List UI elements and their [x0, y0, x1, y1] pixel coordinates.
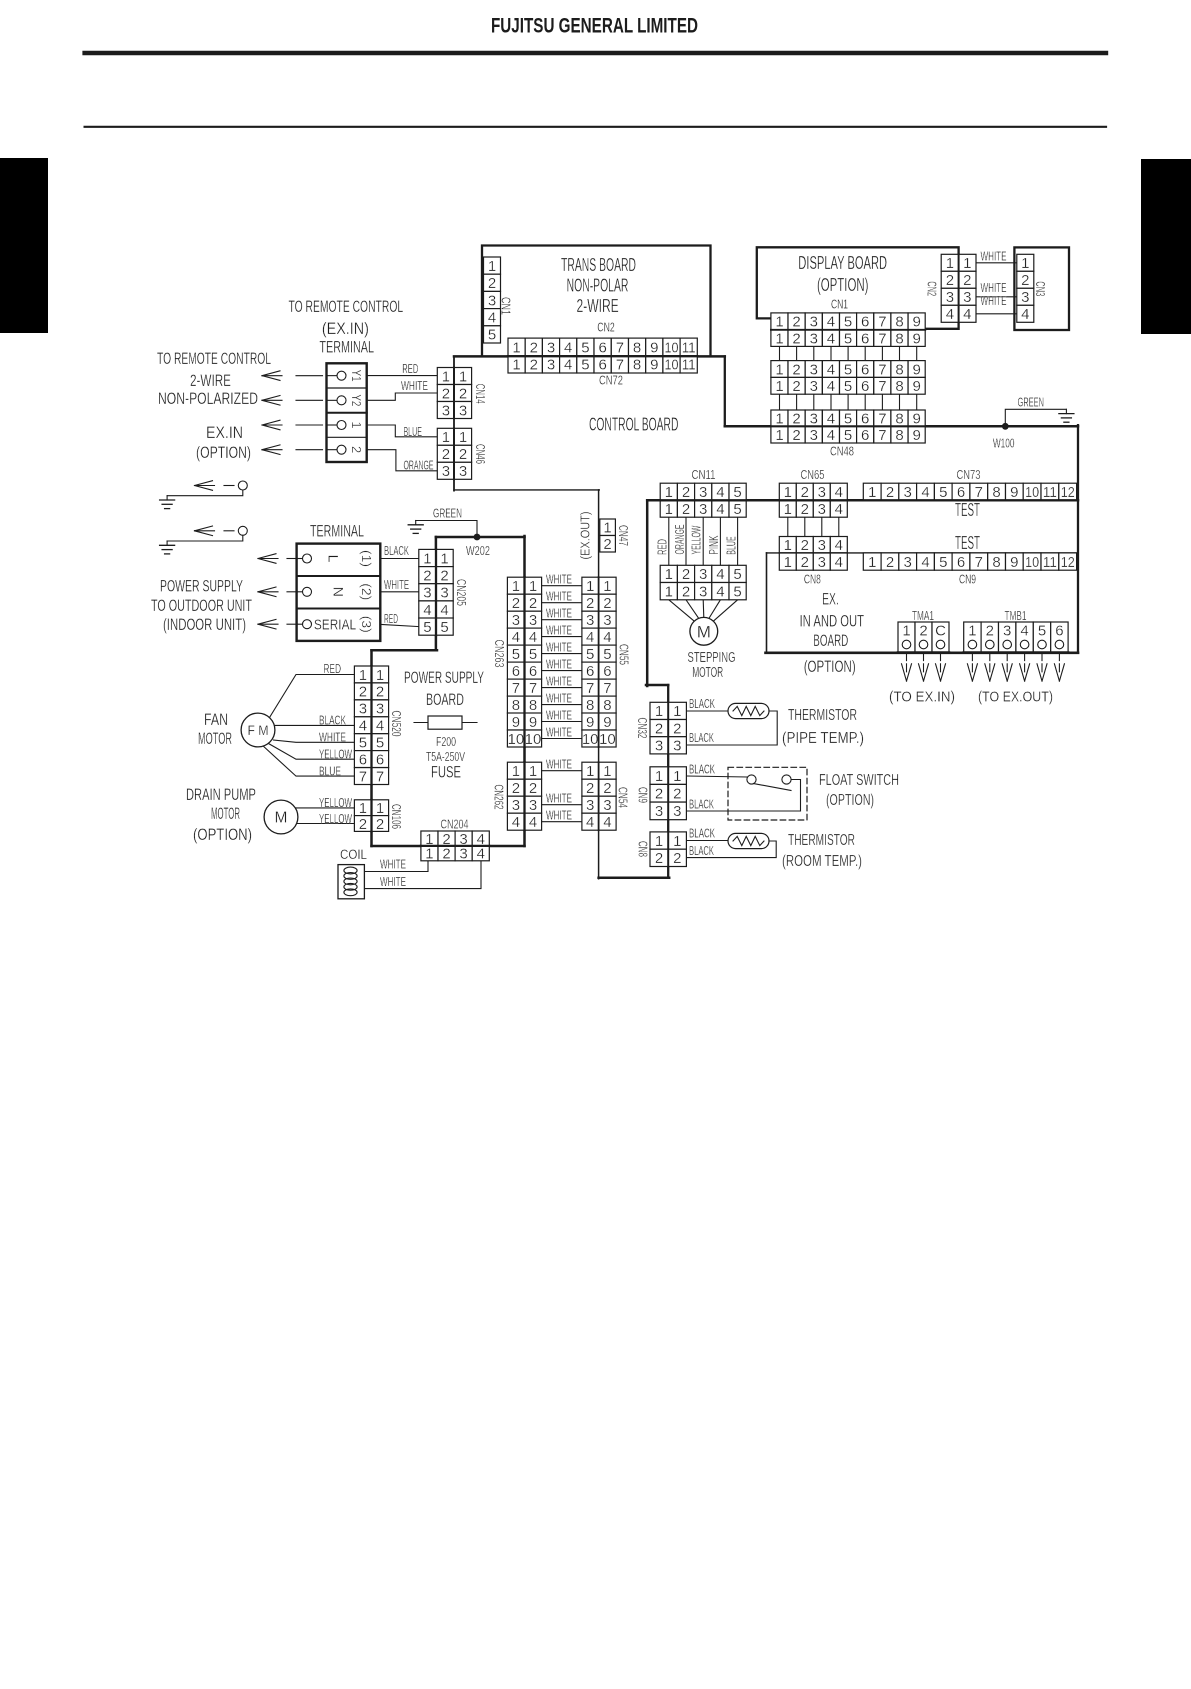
connector CN14 col1	[437, 368, 454, 420]
wires CN65 to CN8	[788, 517, 839, 536]
svg-text:CN2: CN2	[597, 320, 615, 335]
wire CN263 pin9 to CN55 pin9 (WHITE)	[542, 721, 582, 723]
connector CN2 (display board) col1	[941, 254, 958, 323]
svg-text:MOTOR: MOTOR	[211, 804, 240, 823]
svg-text:2: 2	[376, 684, 384, 701]
wire CN263 pin3 to CN55 pin3 (WHITE)	[542, 619, 582, 621]
svg-text:(PIPE TEMP.): (PIPE TEMP.)	[782, 730, 864, 747]
svg-text:TO REMOTE CONTROL: TO REMOTE CONTROL	[157, 349, 271, 368]
board edge through CN2/CN72	[508, 355, 697, 357]
label MOTOR	[692, 664, 723, 681]
svg-text:3: 3	[655, 803, 663, 820]
svg-text:2: 2	[603, 595, 611, 612]
svg-text:7: 7	[359, 768, 367, 785]
svg-text:(2): (2)	[359, 583, 374, 600]
svg-text:1: 1	[665, 501, 673, 518]
wire label RED	[384, 611, 398, 626]
svg-text:1: 1	[425, 846, 433, 863]
board edge through CN520/CN106	[370, 666, 372, 831]
svg-text:CN205: CN205	[454, 579, 469, 606]
svg-text:CN1: CN1	[831, 297, 848, 312]
svg-text:YELLOW: YELLOW	[319, 747, 352, 762]
svg-text:3: 3	[442, 402, 450, 419]
svg-text:1: 1	[359, 800, 367, 817]
float switch box (dashed)	[728, 767, 807, 820]
svg-text:3: 3	[810, 427, 818, 444]
pipe thermistor symbol	[728, 703, 769, 718]
svg-text:4: 4	[359, 718, 367, 735]
wire Y2 to CN14 pin2	[367, 393, 438, 400]
svg-text:3: 3	[673, 803, 681, 820]
svg-text:10: 10	[582, 731, 599, 748]
label (INDOOR UNIT)	[163, 615, 246, 634]
svg-text:BLACK: BLACK	[689, 762, 715, 777]
svg-text:2: 2	[801, 501, 809, 518]
connector label CN48	[830, 444, 854, 459]
svg-text:CN263: CN263	[492, 640, 507, 668]
svg-text:3: 3	[699, 583, 707, 600]
svg-text:2: 2	[442, 446, 450, 463]
svg-text:FAN: FAN	[204, 710, 228, 729]
svg-text:1: 1	[349, 421, 364, 428]
connector label CN47 (rotated)	[616, 525, 631, 546]
label FLOAT SWITCH	[819, 772, 899, 789]
svg-text:4: 4	[1021, 306, 1029, 323]
connector CN205 col2	[436, 549, 453, 636]
svg-text:1: 1	[442, 368, 450, 385]
svg-text:FLOAT SWITCH: FLOAT SWITCH	[819, 772, 899, 789]
wire label WHITE row 10	[546, 724, 572, 739]
label DRAIN PUMP	[186, 785, 256, 804]
stepping motor M	[690, 617, 718, 645]
svg-text:WHITE: WHITE	[546, 606, 572, 621]
svg-text:RED: RED	[654, 539, 669, 555]
svg-text:IN AND OUT: IN AND OUT	[800, 612, 865, 631]
wire label RED	[402, 361, 418, 376]
wires joint connector to CN48	[780, 394, 917, 410]
svg-text:3: 3	[818, 554, 826, 571]
svg-text:3: 3	[488, 292, 496, 309]
terminal TMB1	[964, 622, 1068, 653]
board edge through display CN1	[771, 329, 925, 331]
svg-text:3: 3	[818, 501, 826, 518]
svg-text:ORANGE: ORANGE	[672, 524, 687, 554]
svg-text:4: 4	[716, 484, 724, 501]
svg-text:4: 4	[440, 602, 448, 619]
svg-text:10: 10	[1025, 554, 1039, 571]
svg-text:7: 7	[512, 680, 520, 697]
label COIL	[340, 846, 367, 862]
svg-text:9: 9	[913, 361, 921, 378]
svg-text:RED: RED	[402, 361, 418, 376]
wire float switch to CN9 pin3 (BLACK)	[687, 780, 801, 812]
svg-text:BLACK: BLACK	[689, 696, 715, 711]
svg-text:11: 11	[1043, 554, 1057, 571]
svg-text:10: 10	[508, 731, 525, 748]
svg-text:3: 3	[376, 701, 384, 718]
svg-text:5: 5	[733, 583, 741, 600]
svg-text:5: 5	[844, 410, 852, 427]
svg-text:2-WIRE: 2-WIRE	[576, 296, 618, 316]
wire label GREEN	[1018, 394, 1044, 409]
wire FM RED to CN520 pin1	[270, 675, 355, 718]
svg-text:CN204: CN204	[441, 817, 469, 832]
wire label BLACK	[689, 762, 715, 777]
svg-text:9: 9	[913, 314, 921, 331]
svg-text:4: 4	[512, 629, 520, 646]
svg-text:DISPLAY BOARD: DISPLAY BOARD	[798, 253, 887, 273]
svg-text:4: 4	[835, 501, 843, 518]
svg-text:2: 2	[682, 583, 690, 600]
label 2-WIRE	[190, 371, 231, 390]
label F200	[436, 734, 456, 749]
svg-text:2: 2	[986, 623, 994, 640]
svg-text:3: 3	[459, 846, 467, 863]
label NON-POLARIZED	[158, 389, 258, 408]
svg-text:2: 2	[603, 780, 611, 797]
wires connector to stepping motor	[669, 600, 738, 621]
wire label WHITE row 3	[546, 606, 572, 621]
svg-text:WHITE: WHITE	[981, 294, 1007, 308]
svg-text:1: 1	[529, 578, 537, 595]
svg-text:1: 1	[665, 583, 673, 600]
svg-text:1: 1	[376, 667, 384, 684]
connector label CN55 (rotated)	[616, 644, 631, 665]
svg-text:1: 1	[946, 255, 954, 272]
svg-text:2: 2	[1021, 272, 1029, 289]
connector label CN8 (rotated)	[635, 841, 650, 857]
svg-text:WHITE: WHITE	[546, 724, 572, 739]
wire label RED	[323, 661, 341, 676]
svg-text:4: 4	[827, 410, 835, 427]
display board box	[757, 247, 959, 328]
svg-text:TERMINAL: TERMINAL	[310, 522, 364, 541]
svg-text:M: M	[275, 810, 288, 827]
connector label CN65	[801, 467, 825, 482]
svg-text:5: 5	[844, 361, 852, 378]
svg-text:1: 1	[512, 339, 520, 356]
svg-text:3: 3	[440, 585, 448, 602]
wire L terminal to CN205 pin1	[380, 558, 419, 560]
svg-text:CN54: CN54	[615, 787, 630, 808]
svg-text:F200: F200	[436, 734, 456, 749]
svg-text:SERIAL: SERIAL	[314, 617, 356, 633]
wire drain pump YELLOW to CN106 pin2	[296, 823, 354, 825]
remote control terminal block	[327, 363, 367, 462]
svg-text:3: 3	[818, 484, 826, 501]
svg-text:2: 2	[423, 567, 431, 584]
svg-text:CN3: CN3	[1033, 281, 1048, 296]
svg-text:2: 2	[440, 567, 448, 584]
svg-text:3: 3	[946, 289, 954, 306]
board edge through CN14/CN46	[453, 368, 455, 480]
svg-text:3: 3	[442, 463, 450, 480]
label NON-POLAR	[567, 276, 629, 296]
svg-text:5: 5	[733, 501, 741, 518]
svg-text:1: 1	[512, 763, 520, 780]
wire label WHITE CN262 row 4	[546, 808, 572, 823]
svg-text:1: 1	[673, 833, 681, 850]
connector CN1 (display board) row1	[771, 313, 925, 331]
svg-text:5: 5	[512, 646, 520, 663]
label POWER SUPPLY	[160, 577, 243, 596]
svg-text:1: 1	[868, 484, 876, 501]
svg-text:3: 3	[603, 797, 611, 814]
arrow power supply row 3	[258, 619, 298, 629]
wire label ORANGE	[404, 458, 434, 473]
wire CN263 pin8 to CN55 pin8 (WHITE)	[542, 704, 582, 706]
svg-text:4: 4	[586, 814, 594, 831]
svg-text:3: 3	[810, 410, 818, 427]
svg-text:5: 5	[603, 646, 611, 663]
svg-text:8: 8	[895, 427, 903, 444]
svg-text:5: 5	[376, 735, 384, 752]
svg-text:WHITE: WHITE	[546, 808, 572, 823]
svg-text:7: 7	[878, 330, 886, 347]
wires display CN1 row to joint connector	[780, 346, 917, 360]
svg-text:3: 3	[810, 314, 818, 331]
wire CN263 pin1 to CN55 pin1 (WHITE)	[542, 585, 582, 587]
svg-text:2: 2	[512, 780, 520, 797]
svg-text:6: 6	[861, 410, 869, 427]
svg-text:YELLOW: YELLOW	[689, 525, 704, 554]
svg-text:11: 11	[682, 357, 696, 374]
arrow to remote control row 3	[262, 420, 323, 430]
svg-text:BLUE: BLUE	[403, 424, 422, 439]
svg-text:WHITE: WHITE	[546, 707, 572, 722]
label TEST	[955, 533, 980, 553]
junction W202	[474, 534, 481, 541]
svg-text:CN65: CN65	[801, 467, 825, 482]
svg-text:3: 3	[810, 361, 818, 378]
svg-text:TRANS BOARD: TRANS BOARD	[561, 255, 636, 275]
svg-text:W202: W202	[466, 543, 490, 558]
svg-text:CN72: CN72	[599, 373, 623, 388]
svg-text:3: 3	[810, 378, 818, 395]
svg-text:2: 2	[963, 272, 971, 289]
board edge through CN32/CN9/CN8	[667, 702, 669, 866]
svg-text:11: 11	[682, 339, 696, 356]
wire label W100	[993, 436, 1015, 451]
svg-text:8: 8	[895, 378, 903, 395]
label EX.	[822, 590, 839, 609]
svg-text:WHITE: WHITE	[546, 690, 572, 705]
svg-text:1: 1	[488, 258, 496, 275]
svg-text:7: 7	[603, 680, 611, 697]
wire label BLACK	[689, 797, 714, 812]
svg-text:2: 2	[488, 275, 496, 292]
arrows to EX.OUT	[967, 653, 1064, 681]
connector label CN204	[441, 817, 469, 832]
wire label BLUE	[319, 764, 341, 779]
svg-text:3: 3	[547, 339, 555, 356]
svg-text:POWER SUPPLY: POWER SUPPLY	[160, 577, 243, 596]
svg-text:3: 3	[810, 330, 818, 347]
control board outline	[454, 356, 1078, 878]
svg-text:10: 10	[665, 339, 679, 356]
svg-text:2: 2	[673, 850, 681, 867]
svg-text:EX.: EX.	[822, 590, 839, 609]
connector label CN9 (rotated)	[635, 787, 650, 803]
wire CN263 pin7 to CN55 pin7 (WHITE)	[542, 687, 582, 689]
svg-text:CN2: CN2	[925, 281, 940, 296]
svg-text:2: 2	[655, 720, 663, 737]
wire SERIAL terminal to CN205 pin5	[380, 624, 419, 626]
svg-text:1: 1	[775, 410, 783, 427]
svg-text:TO REMOTE CONTROL: TO REMOTE CONTROL	[289, 297, 404, 316]
svg-text:MOTOR: MOTOR	[692, 664, 723, 681]
svg-text:CN520: CN520	[389, 711, 404, 737]
svg-text:5: 5	[581, 357, 589, 374]
svg-text:4: 4	[835, 554, 843, 571]
power supply terminal block	[297, 544, 381, 641]
connector CN11 row1	[660, 483, 746, 501]
svg-text:4: 4	[1020, 623, 1028, 640]
svg-text:CN8: CN8	[635, 841, 650, 857]
stepping motor connector row1	[660, 565, 746, 583]
svg-text:4: 4	[835, 484, 843, 501]
svg-text:2: 2	[529, 780, 537, 797]
connector CN205 col1	[419, 549, 436, 636]
label (EX.OUT) (rotated)	[578, 512, 593, 560]
svg-text:12: 12	[1061, 554, 1075, 571]
connector CN8 col2	[668, 832, 686, 867]
svg-text:WHITE: WHITE	[384, 577, 409, 592]
svg-text:1: 1	[968, 623, 976, 640]
svg-text:1: 1	[603, 763, 611, 780]
wire label WHITE CN2-CN3 row 4	[981, 294, 1007, 308]
svg-text:5: 5	[844, 330, 852, 347]
svg-text:4: 4	[376, 718, 384, 735]
svg-text:7: 7	[878, 314, 886, 331]
svg-text:3: 3	[818, 537, 826, 554]
trans board box	[482, 246, 711, 357]
wire label WHITE	[380, 874, 406, 889]
svg-text:7: 7	[975, 484, 983, 501]
wire CN263 pin10 to CN55 pin10 (WHITE)	[542, 738, 582, 740]
svg-text:WHITE: WHITE	[546, 791, 572, 806]
connector CN8 (ex board) row1	[779, 537, 847, 555]
label (OPTION)	[196, 443, 251, 462]
green ground wire to W202	[408, 521, 477, 538]
svg-text:CN32: CN32	[635, 718, 650, 739]
svg-text:(ROOM TEMP.): (ROOM TEMP.)	[782, 853, 862, 870]
label (EX.IN)	[322, 319, 369, 338]
svg-text:1: 1	[775, 361, 783, 378]
svg-text:6: 6	[599, 339, 607, 356]
arrow to remote control row 1	[262, 371, 323, 381]
connector label CN72	[599, 373, 623, 388]
wire CN2 pin1 to CN3 pin1 (WHITE)	[976, 262, 1017, 264]
wire CN32 pin1 to pipe thermistor (BLACK)	[687, 710, 728, 712]
svg-text:8: 8	[633, 339, 641, 356]
svg-text:4: 4	[827, 330, 835, 347]
svg-text:(OPTION): (OPTION)	[196, 443, 251, 462]
connector label CN2 (rotated)	[925, 281, 940, 296]
svg-text:TEST: TEST	[955, 533, 980, 553]
board edge through CN11/CN65/CN73	[660, 499, 1076, 501]
svg-text:L: L	[326, 555, 342, 563]
svg-text:6: 6	[861, 330, 869, 347]
wire label BLACK	[384, 543, 409, 558]
svg-text:8: 8	[992, 554, 1000, 571]
connector CN54 col1	[582, 762, 599, 831]
svg-text:3: 3	[603, 612, 611, 629]
svg-text:6: 6	[603, 663, 611, 680]
wire CN2 pin4 to CN3 pin4 (WHITE)	[976, 313, 1017, 315]
svg-text:CN11: CN11	[692, 467, 716, 482]
label BOARD	[813, 631, 848, 650]
connector CN11 row2	[660, 500, 746, 518]
svg-text:BLUE: BLUE	[723, 536, 738, 555]
svg-text:5: 5	[529, 646, 537, 663]
svg-text:2: 2	[801, 537, 809, 554]
svg-text:3: 3	[512, 797, 520, 814]
wire label WHITE row 7	[546, 673, 572, 688]
wire label RED (rotated)	[654, 539, 669, 555]
svg-text:3: 3	[904, 554, 912, 571]
label TO OUTDOOR UNIT	[151, 596, 252, 615]
svg-text:4: 4	[716, 583, 724, 600]
svg-text:9: 9	[586, 714, 594, 731]
label TRANS BOARD	[561, 255, 636, 275]
label IN AND OUT	[800, 612, 865, 631]
svg-text:RED: RED	[323, 661, 341, 676]
svg-text:4: 4	[603, 814, 611, 831]
svg-text:WHITE: WHITE	[546, 589, 572, 604]
connector CN46 col1	[437, 428, 454, 480]
label FUSE	[431, 763, 461, 782]
wire label YELLOW (rotated)	[689, 525, 704, 554]
connector CN46 col2	[454, 428, 471, 480]
svg-text:F M: F M	[248, 723, 269, 738]
label STEPPING	[688, 649, 736, 666]
svg-text:3: 3	[1003, 623, 1011, 640]
svg-text:FUJITSU GENERAL LIMITED: FUJITSU GENERAL LIMITED	[491, 15, 698, 38]
svg-text:TMB1: TMB1	[1005, 608, 1027, 623]
wire label YELLOW	[319, 811, 352, 826]
wire N terminal to CN205 pin3	[380, 591, 419, 593]
svg-text:BOARD: BOARD	[813, 631, 848, 650]
svg-text:1: 1	[459, 429, 467, 446]
wire label W202	[466, 543, 490, 558]
svg-text:6: 6	[359, 751, 367, 768]
board edge through CN8 (ex)	[779, 552, 847, 554]
svg-text:4: 4	[827, 378, 835, 395]
svg-text:7: 7	[616, 339, 624, 356]
svg-text:2-WIRE: 2-WIRE	[190, 371, 231, 390]
fuse F200 symbol	[414, 716, 477, 729]
connector CN65 row2	[779, 500, 847, 518]
svg-text:1: 1	[586, 578, 594, 595]
svg-text:BLACK: BLACK	[689, 843, 714, 858]
svg-text:2: 2	[919, 623, 927, 640]
wire label WHITE	[319, 730, 346, 745]
wire CN263 pin5 to CN55 pin5 (WHITE)	[542, 653, 582, 655]
wire label BLACK	[689, 696, 715, 711]
header rule thick	[85, 51, 1106, 55]
board edge through CN2 (display)	[958, 254, 960, 322]
label CONTROL BOARD	[589, 415, 679, 435]
svg-text:(INDOOR UNIT): (INDOOR UNIT)	[163, 615, 246, 634]
svg-text:8: 8	[895, 314, 903, 331]
arrow to remote control row 4	[262, 445, 323, 455]
header rule thin	[85, 126, 1106, 128]
svg-text:5: 5	[844, 427, 852, 444]
wire label WHITE	[401, 378, 428, 393]
wire label GREEN	[433, 506, 462, 521]
svg-text:5: 5	[440, 619, 448, 636]
